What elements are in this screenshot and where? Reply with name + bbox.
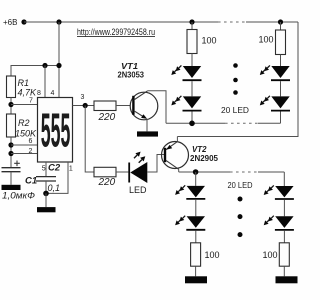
wire +6V top rail (dashed middle) (218, 21, 246, 23)
wire pin 2 (11, 153, 38, 155)
LED D1 emission arrows (264, 185, 274, 195)
svg-text:http://www.299792458.ru: http://www.299792458.ru (77, 27, 155, 37)
wire pin 7 (11, 104, 38, 106)
LED B1 (271, 66, 290, 80)
ground string C (185, 276, 207, 283)
wire VT1 collector up and over to LED rail (148, 91, 166, 124)
LED C2 (186, 216, 205, 230)
wire VT2 emitter up (176, 137, 178, 142)
LED indicator emission arrows (134, 152, 145, 163)
LED A2 (183, 96, 202, 110)
capacitor C1 polarity plus (14, 161, 20, 167)
transistor VT1 emitter diagonal with arrow (134, 111, 147, 119)
LED A1 (183, 66, 202, 80)
junction dot pin3 (83, 103, 88, 108)
svg-text:7: 7 (29, 97, 33, 104)
transistor VT2 emitter diagonal with arrow (PNP) (166, 142, 177, 150)
wire pin3 down branch to lower 220 (85, 106, 94, 173)
svg-text:6: 6 (29, 138, 33, 145)
capacitor C2 plates (36, 177, 56, 181)
junction dot supply branch (56, 19, 61, 24)
ground VT1 (137, 131, 158, 136)
wire LED A1 to A2 (191, 81, 193, 96)
wire LED group1 bottom rail (dashed) (225, 122, 258, 124)
junction dot C2/pin1 (43, 191, 49, 197)
junction dot pin2 (8, 151, 13, 156)
wire pin 5 (45, 162, 47, 176)
resistor 100 (string A) (187, 30, 197, 54)
junction dot string B top (278, 19, 283, 24)
junction dot pin8 branch (42, 63, 47, 68)
wire LED A2 to rail (191, 112, 193, 124)
svg-text:8: 8 (37, 90, 41, 97)
wire string A to resistor (191, 22, 193, 30)
wire supply branch to R1 top (11, 66, 59, 77)
site url label (77, 27, 155, 37)
LED D1 (275, 186, 294, 199)
wire resistor to LED A1 (191, 54, 193, 67)
svg-text:+6В: +6В (3, 18, 17, 27)
svg-text:0,1: 0,1 (48, 183, 61, 193)
wire LED group2 top rail (solid right) (258, 171, 284, 173)
wire LED group1 bottom rail (solid right) (258, 122, 281, 124)
resistor R1 (7, 76, 16, 98)
transistor VT2 base bar (164, 148, 166, 162)
wire vertical supply to pin 4 (58, 22, 60, 98)
resistor 100 (string C) (191, 243, 201, 266)
wire LED D2 to resistor (283, 231, 285, 243)
IC U1 555 box (38, 98, 73, 163)
wire VT2 collector down (178, 169, 180, 172)
ground C2 (37, 207, 56, 212)
wire 220 to LED anode (116, 171, 128, 173)
wire string C to LED C1 (195, 172, 197, 186)
svg-text:220: 220 (98, 112, 116, 123)
LED A2 emission arrows (171, 96, 181, 106)
wire +6V top rail (solid right) (246, 21, 298, 23)
wire junction to ground (45, 193, 47, 207)
junction dot string A bottom (189, 121, 195, 127)
wire string D from rail down (283, 172, 285, 186)
wire R1 to R2 (10, 98, 12, 115)
LED indicator triangle (130, 162, 147, 183)
LED C1 (186, 186, 205, 199)
wire R2 to C1 (10, 137, 12, 167)
junction dot pin7 (8, 102, 13, 107)
svg-text:2N2905: 2N2905 (190, 154, 219, 163)
svg-text:R2: R2 (18, 118, 30, 128)
LED C1 emission arrows (175, 185, 185, 195)
svg-text:C2: C2 (48, 162, 61, 173)
wire resistor to ground (283, 266, 285, 276)
wire right edge down to VT2 emitter feed (177, 22, 298, 137)
svg-text:20 LED: 20 LED (221, 105, 249, 115)
svg-text:C1: C1 (25, 176, 37, 187)
resistor 220 (bottom) (94, 167, 116, 177)
svg-text:2: 2 (29, 148, 33, 155)
wire resistor to LED B1 (280, 55, 282, 67)
wire pin 3 output (73, 105, 95, 107)
svg-text:LED: LED (129, 185, 147, 195)
wire VT1 emitter to ground (146, 119, 148, 131)
wire pin 8 (44, 66, 46, 98)
resistor 100 (string D) (279, 243, 289, 266)
resistor 220 (top) (94, 101, 116, 111)
wire pin 1 (46, 162, 68, 193)
LED B2 (271, 96, 290, 110)
LED B1 emission arrows (260, 65, 270, 75)
svg-text:1,0мкФ: 1,0мкФ (2, 191, 35, 201)
+6V terminal dot (21, 19, 26, 24)
transistor VT1 base bar (132, 96, 134, 115)
svg-text:100: 100 (263, 250, 278, 260)
svg-text:R1: R1 (18, 78, 30, 88)
ground string D (276, 276, 298, 283)
svg-text:150K: 150K (15, 129, 37, 139)
LED D2 (275, 216, 294, 230)
svg-text:4,7K: 4,7K (18, 88, 38, 98)
transistor VT1 collector diagonal (134, 91, 148, 100)
svg-text:100: 100 (205, 250, 220, 260)
transistor VT1 circle (130, 92, 158, 120)
resistor 100 (string B) (276, 30, 286, 55)
wire LED D1 to D2 (283, 200, 285, 216)
transistor VT2 collector diagonal (166, 160, 179, 169)
svg-text:3: 3 (81, 94, 85, 101)
svg-text:5: 5 (42, 166, 46, 173)
transistor VT2 circle (162, 142, 189, 169)
svg-text:VT2: VT2 (192, 145, 207, 154)
LED A1 emission arrows (171, 65, 181, 75)
svg-text:100: 100 (202, 36, 217, 46)
wire resistor to ground (195, 266, 197, 276)
wire LED B1 to B2 (280, 81, 282, 96)
resistor R2 (7, 114, 16, 137)
wire +6V top rail (solid left) (24, 21, 218, 23)
svg-text:555: 555 (41, 103, 71, 157)
wire string B to resistor (280, 22, 282, 30)
LED D2 emission arrows (264, 216, 274, 226)
wire LED C2 to resistor (195, 231, 197, 243)
svg-text:100: 100 (259, 35, 274, 45)
wire LED to VT2 base (147, 155, 164, 173)
ellipsis dots group1 (233, 63, 238, 95)
ground C1 (2, 185, 21, 190)
svg-text:20 LED: 20 LED (228, 180, 253, 190)
svg-text:2N3053: 2N3053 (118, 70, 145, 79)
wire LED group2 top rail (solid left) (179, 171, 230, 173)
junction dot pin6 (8, 142, 13, 147)
junction dot string C top (193, 169, 199, 175)
wire LED group1 bottom rail (solid left) (166, 122, 225, 124)
svg-text:4: 4 (51, 90, 55, 97)
LED B2 emission arrows (260, 96, 270, 106)
LED indicator cathode bar (128, 163, 130, 183)
wire C1 to ground (10, 172, 12, 185)
junction dot on supply vertical (56, 63, 61, 68)
svg-text:1: 1 (69, 165, 73, 172)
wire LED B2 to rail (280, 112, 282, 124)
svg-text:220: 220 (98, 177, 116, 188)
wire pin 6 (11, 144, 38, 146)
LED C2 emission arrows (175, 216, 185, 226)
wire C2 bottom to junction (45, 181, 47, 193)
ellipsis dots group2 (238, 197, 243, 238)
capacitor C1 plates (2, 168, 21, 172)
wire 220 to VT1 base (116, 105, 130, 107)
wire LED group2 top rail (dashed) (230, 171, 258, 173)
wire LED C1 to C2 (195, 200, 197, 217)
junction dot string A top (189, 19, 194, 24)
